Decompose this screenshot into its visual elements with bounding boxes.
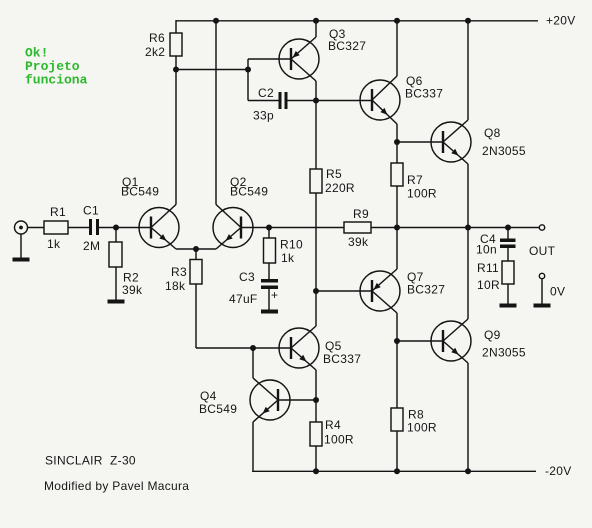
wire bbox=[396, 313, 398, 341]
resistor R9 bbox=[344, 222, 371, 233]
svg-text:BC327: BC327 bbox=[328, 39, 366, 53]
wire bbox=[315, 21, 317, 37]
wire bbox=[68, 227, 89, 229]
svg-text:R3: R3 bbox=[171, 265, 187, 279]
wire bbox=[176, 69, 248, 71]
wire bbox=[268, 228, 270, 239]
wire bbox=[315, 81, 317, 101]
wire bbox=[316, 290, 373, 292]
power rail +20V bbox=[176, 20, 538, 22]
svg-text:C1: C1 bbox=[83, 204, 99, 218]
wire bbox=[28, 227, 45, 229]
node rail-Q3 bbox=[313, 18, 319, 24]
svg-text:BC337: BC337 bbox=[323, 352, 361, 366]
capacitor C4 bbox=[507, 228, 509, 239]
transistor Q2 body bbox=[213, 205, 253, 250]
transistor Q4 body bbox=[250, 378, 290, 422]
node rail-R8 bbox=[394, 468, 400, 474]
ground C3 bbox=[261, 310, 278, 314]
wire bbox=[241, 227, 344, 229]
svg-text:1k: 1k bbox=[47, 237, 61, 251]
svg-text:1k: 1k bbox=[281, 251, 295, 265]
resistor R5 bbox=[310, 169, 322, 193]
wire bbox=[315, 446, 317, 471]
wire bbox=[278, 399, 316, 401]
svg-text:BC549: BC549 bbox=[121, 185, 159, 199]
wire bbox=[247, 70, 249, 101]
wire bbox=[397, 340, 444, 342]
svg-text:100R: 100R bbox=[407, 421, 437, 435]
wire bbox=[248, 100, 279, 102]
resistor R10 bbox=[264, 238, 276, 263]
node Q7-collector bbox=[394, 338, 400, 344]
svg-text:Q9: Q9 bbox=[484, 328, 501, 342]
capacitor C1 bbox=[89, 219, 92, 235]
transistor Q8 body bbox=[431, 120, 471, 164]
terminal 0V bbox=[539, 273, 544, 278]
terminal OUT bbox=[539, 225, 544, 230]
svg-text:R7: R7 bbox=[407, 173, 423, 187]
svg-text:R8: R8 bbox=[408, 408, 424, 422]
node R6-bottom bbox=[173, 67, 179, 73]
svg-text:BC549: BC549 bbox=[199, 402, 237, 416]
svg-text:C2: C2 bbox=[258, 86, 274, 100]
wire bbox=[175, 20, 177, 33]
node R9-R7 bbox=[394, 225, 400, 231]
resistor R2 bbox=[109, 242, 122, 267]
wire bbox=[247, 59, 249, 70]
svg-text:OUT: OUT bbox=[529, 244, 556, 258]
svg-text:R4: R4 bbox=[325, 418, 341, 432]
transistor Q5 body bbox=[279, 326, 319, 370]
node C2 jog bbox=[245, 67, 251, 73]
wire bbox=[252, 422, 254, 472]
wire bbox=[315, 291, 317, 326]
svg-text:Q8: Q8 bbox=[484, 126, 501, 140]
wire bbox=[396, 124, 398, 142]
wire bbox=[396, 228, 398, 270]
svg-text:10n: 10n bbox=[476, 243, 497, 257]
wire bbox=[115, 228, 117, 243]
svg-text:-20V: -20V bbox=[545, 464, 572, 478]
resistor R7 bbox=[391, 163, 403, 186]
svg-text:+20V: +20V bbox=[546, 14, 576, 28]
wire bbox=[507, 248, 509, 261]
wire bbox=[467, 164, 469, 228]
wire bbox=[467, 21, 469, 120]
wire bbox=[315, 193, 317, 291]
capacitor C3 bbox=[261, 279, 278, 283]
resistor R11 bbox=[502, 261, 514, 284]
svg-text:Q5: Q5 bbox=[325, 339, 342, 353]
wire bbox=[315, 101, 317, 170]
transistor Q1 body bbox=[139, 205, 179, 250]
svg-text:39k: 39k bbox=[348, 235, 369, 249]
wire bbox=[396, 431, 398, 471]
wire bbox=[252, 348, 254, 378]
wire bbox=[268, 263, 270, 279]
wire bbox=[116, 227, 151, 229]
svg-text:220R: 220R bbox=[325, 181, 355, 195]
node R5-bottom bbox=[313, 288, 319, 294]
svg-text:100R: 100R bbox=[407, 187, 437, 201]
node rail-Q2 bbox=[213, 18, 219, 24]
svg-text:BC337: BC337 bbox=[405, 87, 443, 101]
node Q6-emitter bbox=[394, 139, 400, 145]
node rail-R4 bbox=[313, 468, 319, 474]
ground input bbox=[13, 258, 30, 262]
node Q4-collector bbox=[250, 345, 256, 351]
resistor R6 bbox=[170, 33, 182, 56]
wire bbox=[175, 70, 177, 205]
resistor R4 bbox=[310, 422, 322, 446]
transistor Q7 body bbox=[360, 269, 400, 313]
ground 0V bbox=[534, 304, 551, 308]
wire bbox=[315, 370, 317, 400]
svg-text:2k2: 2k2 bbox=[145, 45, 165, 59]
wire bbox=[467, 363, 469, 471]
power rail -20V bbox=[252, 470, 536, 472]
svg-text:+: + bbox=[271, 288, 278, 302]
wire bbox=[20, 234, 22, 258]
wire bbox=[316, 100, 373, 102]
svg-text:39k: 39k bbox=[122, 283, 143, 297]
wire bbox=[397, 141, 444, 143]
svg-text:2M: 2M bbox=[83, 239, 100, 253]
ground R11 bbox=[500, 304, 517, 308]
wire bbox=[196, 347, 291, 349]
node output-Q8Q9 bbox=[465, 225, 471, 231]
transistor Q6 body bbox=[360, 76, 400, 124]
svg-text:R6: R6 bbox=[149, 31, 165, 45]
svg-text:100R: 100R bbox=[324, 433, 354, 447]
wire bbox=[288, 100, 317, 102]
wire bbox=[175, 56, 177, 70]
transistor Q9 body bbox=[431, 319, 471, 363]
svg-text:BC549: BC549 bbox=[230, 185, 268, 199]
wire bbox=[248, 58, 291, 60]
wire bbox=[371, 227, 539, 229]
resistor R8 bbox=[391, 408, 403, 431]
wire bbox=[396, 341, 398, 408]
svg-text:R9: R9 bbox=[353, 207, 369, 221]
wire bbox=[195, 284, 197, 348]
wire bbox=[315, 400, 317, 422]
node input bbox=[113, 225, 119, 231]
wire bbox=[467, 228, 469, 320]
node output-C4 bbox=[505, 225, 511, 231]
ground R2 bbox=[108, 300, 125, 304]
svg-text:Modified by Pavel Macura: Modified by Pavel Macura bbox=[44, 479, 189, 493]
wire bbox=[541, 279, 543, 304]
wire bbox=[176, 248, 216, 250]
svg-text:R10: R10 bbox=[280, 238, 303, 252]
resistor R3 bbox=[190, 260, 202, 285]
node rail-Q9 bbox=[465, 468, 471, 474]
wire bbox=[215, 21, 217, 205]
svg-text:0V: 0V bbox=[550, 285, 565, 299]
svg-text:33p: 33p bbox=[253, 109, 274, 123]
wire bbox=[396, 186, 398, 228]
svg-text:18k: 18k bbox=[165, 279, 186, 293]
wire bbox=[507, 284, 509, 304]
svg-text:2N3055: 2N3055 bbox=[482, 144, 526, 158]
svg-text:Q4: Q4 bbox=[200, 389, 217, 403]
svg-text:R11: R11 bbox=[477, 261, 499, 275]
svg-text:C3: C3 bbox=[239, 270, 255, 284]
svg-text:funciona: funciona bbox=[25, 73, 88, 88]
svg-text:R1: R1 bbox=[50, 205, 66, 219]
transistor Q3 body bbox=[279, 37, 319, 81]
wire bbox=[396, 21, 398, 76]
svg-text:47uF: 47uF bbox=[229, 292, 258, 306]
svg-text:10R: 10R bbox=[477, 278, 500, 292]
svg-text:SINCLAIR Z-30: SINCLAIR Z-30 bbox=[45, 454, 136, 468]
wire bbox=[195, 249, 197, 260]
node Q4-base bbox=[313, 397, 319, 403]
input connector J1 bbox=[15, 221, 28, 234]
node Q3-collector bbox=[313, 98, 319, 104]
wire bbox=[396, 142, 398, 163]
wire bbox=[99, 227, 116, 229]
svg-text:BC327: BC327 bbox=[407, 283, 445, 297]
wire bbox=[115, 267, 117, 300]
node feedback bbox=[266, 225, 272, 231]
wire bbox=[268, 289, 270, 310]
svg-text:R5: R5 bbox=[326, 167, 342, 181]
node rail-Q8 bbox=[465, 18, 471, 24]
resistor R1 bbox=[44, 221, 68, 234]
node rail-Q6 bbox=[394, 18, 400, 24]
capacitor C2 bbox=[279, 92, 282, 109]
node emitters bbox=[193, 246, 199, 252]
svg-text:2N3055: 2N3055 bbox=[482, 346, 526, 360]
